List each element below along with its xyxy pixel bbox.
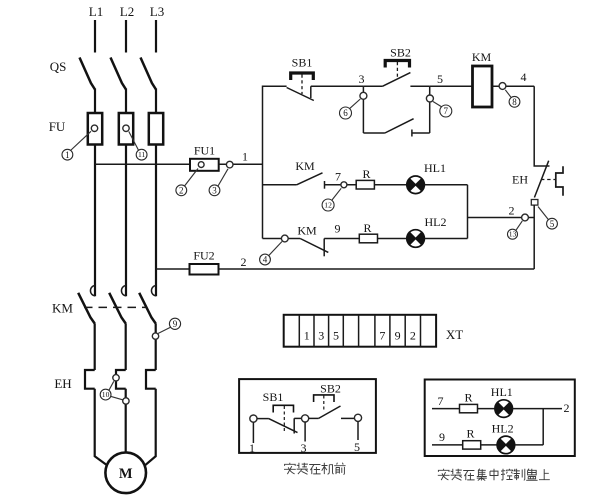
svg-text:QS: QS — [50, 59, 67, 74]
wire FU2 to right rail net 2 — [219, 268, 535, 270]
svg-text:4: 4 — [263, 255, 268, 265]
contactor KM auxiliary NO contact fixed tick — [411, 130, 413, 137]
thermal contact EH NC blade — [534, 161, 548, 198]
contactor KM NO contact (HL1 row) fixed tick — [324, 181, 326, 189]
wire HL1 to joiner — [424, 184, 467, 186]
wire SB1 to node 3 — [311, 85, 364, 87]
pushbutton SB1 fixed stub — [310, 86, 312, 98]
wire row 7 (panel) — [432, 408, 460, 410]
svg-text:HL1: HL1 — [424, 161, 446, 175]
svg-text:SB1: SB1 — [263, 390, 284, 404]
fuse FU pole 2 — [119, 113, 133, 145]
wire SB2 to terminal 5 (box) — [341, 417, 354, 419]
pin label 1 (box) — [249, 441, 255, 455]
thermal relay EH label — [54, 376, 71, 391]
wire KM to EH pole 2 — [125, 323, 127, 370]
net label 2 — [241, 255, 247, 269]
resistor R (HL2 row) label — [363, 221, 371, 235]
junction circle in FU1 — [198, 162, 204, 168]
svg-text:13: 13 — [509, 230, 517, 239]
wire R to HL1 (panel) — [478, 408, 495, 410]
junction circle node 2 — [522, 214, 529, 221]
resistor R label (panel row 9) — [466, 427, 474, 441]
resistor R (HL1 row) label — [362, 167, 370, 181]
svg-text:10: 10 — [102, 390, 110, 399]
net label 5 — [437, 72, 443, 86]
net label 9 — [335, 222, 341, 236]
svg-text:FU2: FU2 — [193, 249, 214, 263]
svg-text:9: 9 — [335, 222, 341, 236]
thermal relay EH heater pole 1 — [85, 370, 95, 389]
wire node 5 drop — [429, 86, 431, 133]
svg-text:KM: KM — [297, 224, 317, 238]
junction circle node 1 — [226, 161, 233, 168]
contactor KM pole 3 fixed contact hook — [151, 286, 156, 296]
pin label 9 (panel) — [439, 430, 445, 444]
svg-text:L1: L1 — [89, 4, 103, 19]
wire KM to EH pole 1 — [94, 323, 96, 370]
svg-text:HL1: HL1 — [491, 385, 513, 399]
switch QS pole 1 blade — [80, 58, 96, 90]
wire SB2 to node 5 — [410, 85, 429, 87]
contactor KM auxiliary NO contact (self-hold) wire left — [363, 132, 385, 134]
svg-text:9: 9 — [395, 329, 401, 343]
svg-text:SB2: SB2 — [320, 382, 341, 396]
node L1 — [89, 4, 103, 19]
wire R to HL1 — [374, 184, 406, 186]
label circle 8 — [505, 90, 520, 107]
net label 1 — [242, 150, 248, 164]
pin label 3 (box) — [301, 441, 307, 455]
fuse FU label — [49, 119, 66, 134]
junction circle node 9 — [152, 333, 158, 339]
terminal circle 5 (box) — [354, 414, 361, 421]
svg-text:R: R — [466, 427, 474, 441]
svg-text:1: 1 — [304, 329, 310, 343]
svg-text:8: 8 — [512, 97, 517, 107]
thermal relay EH heater pole 2 — [116, 370, 126, 389]
thermal relay EH heater pole 3 — [146, 370, 156, 389]
lamp HL1 label (panel) — [491, 385, 513, 399]
wire QS to FU pole 1 — [94, 89, 96, 114]
fuse FU pole 3 — [149, 113, 163, 145]
node L2 — [120, 4, 134, 19]
contactor KM pole 1 fixed contact hook — [90, 286, 95, 296]
wire terminal 3 to SB2 (box) — [309, 417, 319, 419]
junction circle on FU pole 2 — [123, 125, 129, 131]
resistor R label (panel row 7) — [464, 391, 472, 405]
wire KM NC to R (HL2 row) — [324, 238, 359, 240]
svg-text:L3: L3 — [150, 4, 164, 19]
svg-text:2: 2 — [410, 329, 416, 343]
wire row 9 (panel) — [432, 444, 463, 446]
svg-text:4: 4 — [521, 70, 527, 84]
svg-text:EH: EH — [54, 376, 71, 391]
caption machine-front — [284, 463, 346, 475]
label circle 4 — [260, 242, 282, 265]
label circle 1 — [62, 131, 91, 160]
wire EH to motor pole 3 — [144, 389, 156, 467]
svg-text:M: M — [119, 466, 133, 482]
fuse FU1 label — [194, 144, 215, 158]
svg-text:EH: EH — [512, 173, 528, 187]
lamp HL2 label — [425, 215, 447, 229]
label circle 13 — [508, 221, 523, 239]
wire terminal 1 to SB1 (box) — [257, 418, 268, 420]
label circle 5 — [538, 207, 557, 230]
wire node 3 drop — [362, 86, 364, 133]
wire L3 drop — [155, 20, 157, 53]
junction circle node 10 lower — [123, 398, 129, 404]
lamp HL1 label — [424, 161, 446, 175]
contactor KM pole 2 blade — [109, 293, 126, 324]
label circle 10 — [100, 381, 123, 400]
svg-text:2: 2 — [241, 255, 247, 269]
coil KM label — [472, 50, 492, 64]
wire node 3 to SB2 — [363, 85, 382, 87]
wire EH to motor pole 2 — [125, 389, 127, 453]
wire FU to KM pole 1 — [94, 145, 96, 297]
label circle 7 — [433, 102, 452, 118]
pushbutton SB2 actuator (box) — [314, 395, 334, 410]
net label 2 — [509, 204, 515, 218]
pushbutton SB2 NO blade — [382, 73, 410, 87]
wire L2 drop — [125, 20, 127, 53]
wire QS to FU pole 3 — [155, 89, 157, 114]
terminal XT pin 9 — [395, 329, 401, 343]
coil KM — [473, 66, 493, 107]
svg-text:R: R — [362, 167, 370, 181]
wire tap line 2 to FU2 — [156, 268, 190, 270]
svg-text:R: R — [363, 221, 371, 235]
wire FU to KM pole 3 — [155, 145, 157, 297]
pushbutton SB2 label (box) — [320, 382, 341, 396]
svg-text:9: 9 — [439, 430, 445, 444]
enclosure box machine-front — [239, 379, 376, 453]
wire FU1 to node 1 — [219, 163, 263, 165]
thermal contact EH trip linkage dashes — [541, 179, 556, 181]
wire R to HL2 — [378, 238, 407, 240]
terminal XT pin 1 — [304, 329, 310, 343]
junction circle node 7 — [341, 182, 347, 188]
wire terminal 3 drop (box) — [304, 422, 306, 442]
fuse FU2 label — [193, 249, 214, 263]
contactor KM auxiliary NO contact blade — [385, 119, 414, 133]
svg-text:R: R — [464, 391, 472, 405]
contactor KM linkage dashes — [84, 306, 147, 308]
svg-text:9: 9 — [173, 319, 178, 329]
wire L1 drop — [94, 20, 96, 53]
svg-text:5: 5 — [550, 219, 555, 229]
fuse FU2 — [190, 264, 219, 275]
switch QS label — [50, 59, 67, 74]
resistor R (HL2 row) — [359, 234, 377, 243]
svg-text:11: 11 — [138, 150, 146, 159]
svg-text:1: 1 — [65, 150, 70, 160]
lamp HL1 (panel) — [495, 400, 513, 418]
svg-text:1: 1 — [249, 441, 255, 455]
caption control-panel — [438, 469, 550, 481]
wire joiner vertical — [467, 185, 469, 239]
wire HL1 to net 2 (panel) — [513, 408, 563, 410]
pushbutton SB2 NO blade (box) — [319, 406, 341, 418]
contactor KM main label — [52, 301, 73, 316]
terminal XT pin 5 — [333, 329, 339, 343]
label circle 6 — [340, 99, 361, 119]
wire terminal 1 drop (box) — [252, 422, 254, 443]
junction circle node 4b on HL2 row — [281, 235, 288, 242]
pushbutton SB1 NC blade — [287, 88, 314, 101]
svg-text:2: 2 — [179, 186, 184, 196]
svg-text:3: 3 — [359, 72, 365, 86]
label circle 12 — [322, 188, 341, 211]
node L3 — [150, 4, 164, 19]
svg-text:HL2: HL2 — [425, 215, 447, 229]
svg-text:6: 6 — [343, 108, 348, 118]
wire HL2 row left — [263, 238, 301, 240]
pushbutton SB1 NC blade (box) — [268, 418, 297, 432]
label circle 2 — [176, 169, 198, 196]
wire left control rail net 1 — [263, 86, 287, 238]
wire right rail upper — [534, 86, 549, 166]
contactor KM pole 3 blade — [139, 293, 156, 324]
thermal contact EH moving contact square — [531, 200, 538, 206]
wire node 2 row — [468, 217, 535, 219]
svg-text:KM: KM — [52, 301, 73, 316]
pushbutton SB1 actuator — [291, 73, 314, 94]
junction circle node 3 — [360, 92, 367, 99]
pin label 7 (panel) — [438, 394, 444, 408]
svg-text:L2: L2 — [120, 4, 134, 19]
svg-text:SB2: SB2 — [390, 46, 411, 60]
svg-text:5: 5 — [354, 440, 360, 454]
wire right rail lower — [533, 205, 535, 269]
lamp HL2 — [407, 230, 425, 248]
svg-text:7: 7 — [438, 394, 444, 408]
pushbutton SB2 label — [390, 46, 411, 60]
wire R to HL2 (panel) — [481, 444, 497, 446]
svg-text:KM: KM — [295, 159, 315, 173]
svg-text:3: 3 — [212, 186, 217, 196]
svg-text:7: 7 — [444, 106, 449, 116]
thermal contact EH trip symbol — [556, 166, 563, 195]
wire QS to FU pole 2 — [125, 89, 127, 114]
pushbutton SB1 actuator (box) — [273, 405, 293, 432]
svg-text:XT: XT — [446, 327, 463, 342]
junction circle node 10 upper — [113, 375, 119, 381]
wire terminal 5 drop (box) — [357, 421, 359, 440]
svg-text:3: 3 — [301, 441, 307, 455]
pushbutton SB1 fixed stub (box) — [293, 418, 295, 433]
junction circle on FU pole 1 — [91, 125, 97, 131]
lamp HL1 — [407, 176, 425, 194]
svg-text:KM: KM — [472, 50, 492, 64]
wire joiner (panel) — [542, 409, 544, 445]
resistor R (panel row 7) — [460, 404, 478, 412]
svg-text:5: 5 — [333, 329, 339, 343]
wire HL1 row left — [263, 184, 297, 186]
pin label 2 (panel) — [564, 401, 570, 415]
fuse FU1 — [190, 159, 219, 171]
svg-text:3: 3 — [318, 329, 324, 343]
net label 4 — [521, 70, 527, 84]
contactor KM NO contact (HL1 row) blade — [297, 173, 323, 185]
svg-text:SB1: SB1 — [292, 56, 313, 70]
resistor R (panel row 9) — [463, 441, 481, 449]
net label 7 — [335, 170, 341, 184]
resistor R (HL1 row) — [356, 180, 374, 189]
contactor KM NC contact (HL2 row) stop bar — [323, 239, 325, 257]
enclosure box control-panel — [425, 380, 575, 457]
lamp HL2 (panel) — [497, 436, 515, 454]
junction circle node 4 — [499, 83, 506, 90]
net label 3 — [359, 72, 365, 86]
wire EH to motor pole 1 — [95, 389, 109, 467]
svg-text:FU: FU — [49, 119, 66, 134]
terminal circle 3 (box) — [302, 415, 309, 422]
svg-text:2: 2 — [564, 401, 570, 415]
svg-text:HL2: HL2 — [492, 422, 514, 436]
wire FU to KM pole 2 — [125, 145, 127, 297]
pin label 5 (box) — [354, 440, 360, 454]
terminal circle 1 (box) — [250, 415, 257, 422]
thermal contact EH label — [512, 173, 528, 187]
wire SB1 to terminal 3 (box) — [294, 417, 301, 419]
fuse FU pole 1 — [88, 113, 102, 145]
svg-text:12: 12 — [324, 201, 332, 210]
svg-text:7: 7 — [379, 329, 385, 343]
svg-text:FU1: FU1 — [194, 144, 215, 158]
wire coil KM to node 4 — [493, 85, 535, 87]
wire node 5 to coil KM — [430, 85, 473, 87]
label circle 3 — [209, 169, 228, 196]
terminal block XT — [284, 315, 436, 347]
terminal XT pin 2 — [410, 329, 416, 343]
contactor KM pole 2 fixed contact hook — [121, 286, 126, 296]
svg-text:2: 2 — [509, 204, 515, 218]
wire KM to EH pole 3 — [155, 323, 157, 370]
wire KM contact to node 7 — [325, 184, 357, 186]
svg-text:5: 5 — [437, 72, 443, 86]
terminal XT pin 7 — [379, 329, 385, 343]
svg-text:1: 1 — [242, 150, 248, 164]
contactor KM NC contact (HL2 row) blade — [300, 239, 328, 253]
motor M — [105, 453, 146, 494]
contactor KM pole 1 blade — [78, 293, 95, 324]
junction circle node 5 — [426, 95, 433, 102]
contactor KM NO contact (HL1 row) label — [295, 159, 315, 173]
pushbutton SB1 label — [292, 56, 313, 70]
pushbutton SB2 actuator — [385, 61, 409, 79]
contactor KM auxiliary NO contact wire right — [412, 132, 430, 134]
contactor KM NC contact (HL2 row) label — [297, 224, 317, 238]
terminal XT pin 3 — [318, 329, 324, 343]
switch QS pole 3 blade — [141, 58, 157, 90]
lamp HL2 label (panel) — [492, 422, 514, 436]
svg-text:7: 7 — [335, 170, 341, 184]
switch QS pole 2 blade — [111, 58, 127, 90]
wire HL2 to joiner (panel) — [515, 444, 544, 446]
pushbutton SB1 label (box) — [263, 390, 284, 404]
wire tap line 1 to FU1 — [95, 163, 190, 165]
label circle 11 — [129, 132, 147, 161]
terminal block XT label — [446, 327, 463, 342]
wire HL2 to joiner — [424, 238, 467, 240]
label circle 9 — [158, 318, 181, 333]
